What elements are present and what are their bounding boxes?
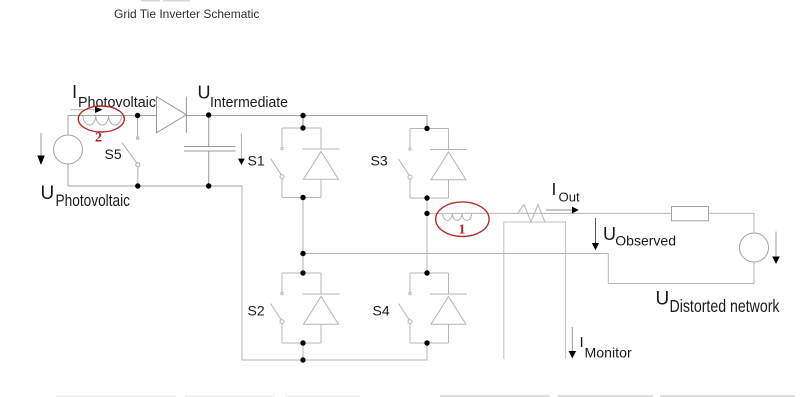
label I Photovoltaic (72, 81, 156, 111)
current arrow I Out (546, 207, 579, 214)
svg-text:I: I (580, 334, 584, 351)
wire: PV top loop (68, 116, 157, 136)
label I Out (552, 179, 581, 205)
label I Monitor (580, 334, 633, 361)
wire: grid source bottom (753, 262, 755, 284)
wire: S3 leg down through AC node to S4 (426, 198, 428, 273)
IGBT cell S2 (271, 273, 340, 343)
svg-text:S4: S4 (373, 302, 390, 318)
capacitor C1 (184, 115, 236, 186)
inductor L2 (PV coil) (83, 116, 121, 126)
label U Observed (603, 224, 676, 249)
current arrow I Monitor (569, 327, 577, 359)
svg-text:Monitor: Monitor (585, 345, 633, 361)
PV source G1 (54, 135, 83, 164)
switch S5 (122, 116, 140, 187)
shunt sense box (504, 222, 566, 359)
svg-text:U: U (656, 288, 670, 309)
PV source direction arrow (37, 133, 45, 165)
label U Distorted network (656, 288, 780, 316)
resistor R1 (grid impedance) (672, 207, 709, 221)
diode D1 (input diode) (157, 97, 187, 133)
wire: lower bridge rail (303, 343, 427, 360)
svg-text:Out: Out (559, 191, 581, 205)
current arrow I Photovoltaic (71, 107, 103, 113)
svg-text:I: I (552, 179, 557, 199)
svg-text:Observed: Observed (615, 233, 676, 249)
svg-text:Intermediate: Intermediate (210, 94, 288, 111)
junction dots (135, 112, 430, 362)
wire: top DC bus (186, 116, 427, 129)
svg-text:U: U (603, 224, 616, 244)
wire: left drop to lower rail (242, 186, 303, 360)
svg-text:S2: S2 (248, 302, 265, 318)
svg-text:S3: S3 (371, 153, 388, 169)
svg-text:Photovoltaic: Photovoltaic (56, 191, 131, 210)
IGBT cell S4 (399, 273, 468, 343)
wire: S2 cell to lower rail (302, 343, 304, 360)
svg-text:2: 2 (95, 131, 102, 146)
svg-text:U: U (198, 83, 211, 103)
grid source direction arrow (772, 232, 780, 265)
svg-text:U: U (41, 183, 55, 204)
svg-text:S1: S1 (248, 153, 265, 169)
wire: mid AC rail (303, 254, 754, 284)
svg-text:Distorted network: Distorted network (670, 296, 780, 316)
grid source G2 (740, 233, 769, 262)
wire: S2 feed (302, 254, 304, 274)
label U Photovoltaic (41, 183, 131, 210)
arrow S1 (voltage arrow) (238, 133, 245, 165)
wire: AC output from coil node (427, 212, 672, 214)
IGBT cell S3 (399, 129, 468, 199)
arrow U Observed (592, 218, 599, 250)
svg-text:S5: S5 (105, 146, 122, 162)
cropped text remnant bottom (56, 395, 795, 397)
shunt zigzag (518, 205, 545, 222)
wire: S1 cell to mid rail (302, 198, 304, 254)
wire: PV bottom (68, 164, 242, 186)
IGBT cell S1 (271, 128, 340, 198)
node: S1 feed from bus (302, 116, 304, 129)
cropped text remnant top (141, 0, 190, 2)
red circle marker around L1 (436, 202, 489, 237)
svg-text:I: I (72, 81, 77, 102)
svg-text:1: 1 (459, 223, 466, 238)
svg-text:Grid Tie Inverter Schematic: Grid Tie Inverter Schematic (114, 7, 259, 21)
label U Intermediate (198, 83, 289, 111)
wire: resistor to grid source (709, 213, 755, 233)
red circle marker around L2 (78, 106, 124, 132)
inductor L1 (output coil) (443, 213, 472, 220)
